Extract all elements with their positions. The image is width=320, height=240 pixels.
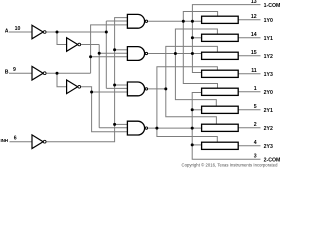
svg-text:Copyright © 2016, Texas Instru: Copyright © 2016, Texas Instruments Inco… [182, 163, 279, 168]
svg-text:5: 5 [254, 104, 257, 110]
svg-text:14: 14 [251, 32, 257, 38]
svg-text:INH: INH [1, 138, 9, 143]
svg-text:15: 15 [251, 50, 257, 56]
svg-text:1-COM: 1-COM [264, 3, 280, 9]
svg-text:2Y0: 2Y0 [264, 90, 273, 96]
svg-text:1Y0: 1Y0 [264, 18, 273, 24]
svg-text:10: 10 [15, 26, 21, 32]
svg-text:1Y2: 1Y2 [264, 54, 273, 60]
svg-text:1Y3: 1Y3 [264, 72, 273, 78]
svg-text:1Y1: 1Y1 [264, 36, 273, 42]
svg-text:9: 9 [13, 67, 16, 73]
svg-text:12: 12 [251, 14, 257, 20]
svg-text:A: A [5, 28, 9, 34]
svg-text:6: 6 [14, 136, 17, 142]
svg-text:11: 11 [251, 68, 257, 74]
svg-text:2Y3: 2Y3 [264, 144, 273, 150]
svg-text:2Y2: 2Y2 [264, 126, 273, 132]
svg-text:4: 4 [254, 140, 257, 146]
svg-text:2: 2 [254, 122, 257, 128]
svg-text:3: 3 [254, 154, 257, 160]
svg-text:1: 1 [254, 86, 257, 92]
svg-text:B: B [5, 70, 9, 76]
svg-text:2Y1: 2Y1 [264, 108, 273, 114]
svg-text:13: 13 [251, 0, 257, 5]
